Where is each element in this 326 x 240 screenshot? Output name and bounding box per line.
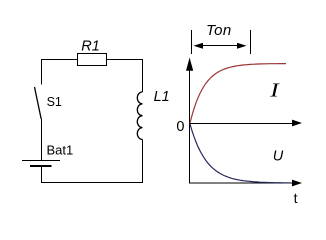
current curve I (red) xyxy=(190,64,286,123)
wire right upper (coil to top) xyxy=(142,59,144,92)
svg-text:S1: S1 xyxy=(47,95,62,109)
wire left upper (to switch) xyxy=(41,59,43,85)
X axis middle xyxy=(190,123,294,125)
X axis middle arrowhead xyxy=(292,120,302,127)
svg-text:L1: L1 xyxy=(154,89,170,105)
Ton left tick xyxy=(191,30,193,54)
Ton right tick xyxy=(250,30,252,54)
svg-text:R1: R1 xyxy=(81,38,100,54)
battery Bat1 long plate xyxy=(22,160,60,162)
svg-text:U: U xyxy=(273,148,284,164)
svg-text:0: 0 xyxy=(176,119,184,135)
wire top right segment xyxy=(107,59,144,61)
wire top left segment xyxy=(41,59,78,61)
voltage curve U (navy) xyxy=(190,124,290,183)
wire left lower (switch to battery) xyxy=(41,119,43,160)
svg-text:Ton: Ton xyxy=(206,22,232,39)
svg-text:Bat1: Bat1 xyxy=(47,142,74,157)
switch S1 blade xyxy=(35,87,42,119)
X axis bottom xyxy=(190,182,294,184)
Ton double arrow left head xyxy=(194,43,204,49)
Y axis arrowhead xyxy=(186,58,193,71)
wire bottom xyxy=(41,182,143,184)
battery Bat1 short plate xyxy=(30,165,52,167)
svg-text:I: I xyxy=(269,79,280,101)
Ton double arrow line xyxy=(196,45,244,47)
inductor L1 coil xyxy=(137,92,142,140)
Ton double arrow right head xyxy=(237,43,247,49)
svg-text:t: t xyxy=(294,190,298,206)
X axis bottom arrowhead xyxy=(292,180,302,187)
resistor R1 xyxy=(78,54,107,66)
Y axis xyxy=(189,68,191,184)
wire right lower (bottom to coil) xyxy=(142,140,144,184)
wire battery to bottom xyxy=(41,166,43,183)
